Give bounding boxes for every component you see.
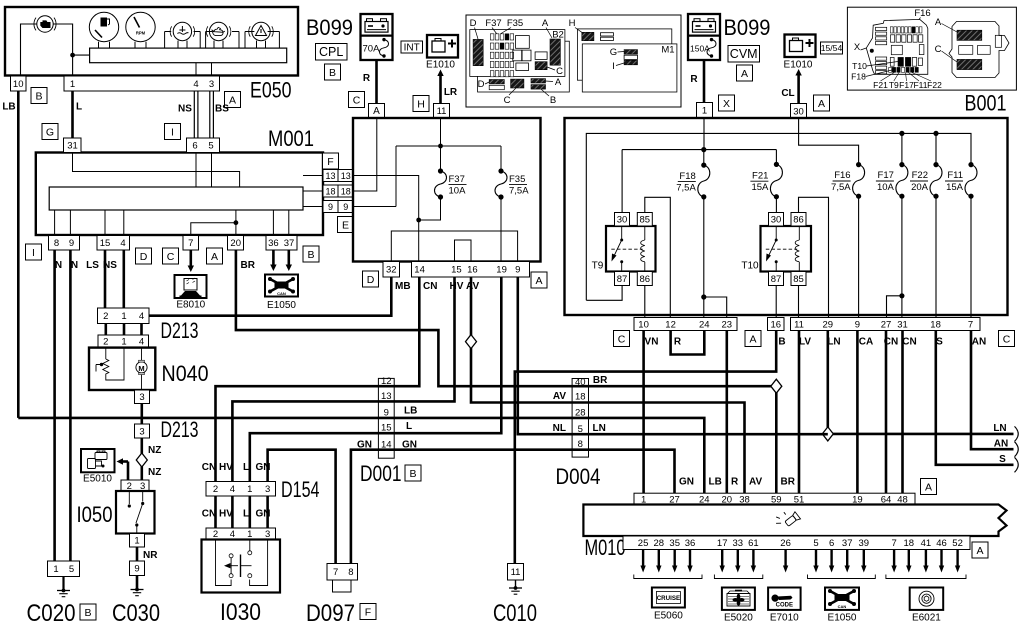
wire CN B001-27 to M010-64 [885, 331, 888, 494]
wire N pin8 to C020 [53, 250, 56, 561]
svg-text:17: 17 [717, 538, 728, 549]
svg-text:30: 30 [793, 106, 804, 117]
T9-86 wire to pin 10 [644, 286, 646, 318]
M001 internal wires to bottom pins [54, 210, 56, 236]
connector D001 strip [378, 378, 394, 458]
boxed letter A [814, 95, 830, 111]
svg-text:A: A [373, 106, 380, 117]
T9 coil [644, 226, 646, 240]
splice LN diamond [822, 427, 833, 441]
fusebox top bus [353, 206, 396, 208]
svg-text:N040: N040 [162, 361, 209, 386]
wire engine icon to pin 10 [21, 24, 38, 76]
oil pressure gauge [209, 22, 227, 40]
svg-text:B: B [409, 468, 416, 480]
svg-text:T9: T9 [889, 80, 899, 90]
svg-text:A: A [818, 98, 825, 110]
boxed label CPL [316, 44, 348, 61]
svg-text:24: 24 [699, 319, 710, 330]
svg-text:A: A [925, 481, 932, 493]
svg-text:32: 32 [386, 265, 397, 276]
connector D213 upper [98, 308, 150, 324]
wire AN B001-7 to right edge [971, 331, 1014, 450]
svg-text:23: 23 [722, 319, 733, 330]
T10 contacts [775, 226, 777, 240]
wires inner bar to pins 4 3 [195, 63, 197, 76]
T10-87 wire to pin 16 [775, 286, 777, 318]
svg-text:52: 52 [952, 538, 963, 549]
wire CN fusebox-14 to D154-2 [216, 277, 420, 482]
svg-text:I: I [32, 247, 35, 259]
svg-text:D: D [478, 79, 485, 90]
svg-text:41: 41 [921, 538, 932, 549]
svg-text:B001: B001 [965, 91, 1007, 116]
svg-text:CN: CN [202, 462, 216, 473]
wire CL arrow to E1010 [797, 75, 800, 104]
boxed letter I [165, 124, 181, 140]
svg-text:87: 87 [617, 274, 628, 285]
splice NZ diamond [136, 453, 147, 467]
svg-text:A: A [535, 275, 542, 287]
T10 pin 87 [769, 272, 784, 286]
svg-text:40: 40 [575, 377, 586, 388]
svg-text:9: 9 [343, 202, 348, 212]
svg-text:C020: C020 [27, 600, 76, 625]
svg-text:D001: D001 [360, 461, 402, 486]
M001 internal wire from 31 [73, 153, 240, 188]
svg-text:M010: M010 [585, 535, 626, 560]
svg-text:F16: F16 [834, 170, 850, 181]
svg-text:LB: LB [404, 406, 417, 417]
svg-text:L: L [243, 462, 249, 473]
M010 top pin strip [634, 493, 915, 504]
node junction in E050 [70, 53, 75, 58]
svg-text:3: 3 [265, 484, 270, 495]
svg-text:A: A [542, 18, 549, 29]
group brackets [634, 575, 702, 579]
M001 internal wires 6 5 [195, 153, 197, 188]
svg-text:CN: CN [202, 509, 216, 520]
boxed letter G [42, 124, 58, 140]
svg-text:LB: LB [2, 102, 15, 113]
svg-text:F16: F16 [914, 8, 930, 19]
wire NL fusebox-9 to LN line [518, 277, 828, 434]
svg-text:X: X [854, 42, 861, 53]
T9 contacts [621, 226, 623, 240]
svg-text:B: B [778, 337, 785, 348]
ground module E5010 [81, 449, 115, 472]
wire BR M001-20 to D004-40 and M010-59 [236, 250, 776, 386]
fuel pump module N040 [89, 348, 155, 390]
svg-text:I030: I030 [220, 599, 261, 625]
svg-text:1: 1 [70, 79, 75, 90]
svg-text:C010: C010 [493, 600, 537, 625]
wire VN B001-10 to M010-1 [642, 331, 645, 494]
svg-text:F21: F21 [873, 80, 888, 90]
svg-text:9: 9 [134, 564, 139, 575]
B001 box [565, 118, 1008, 315]
svg-text:X: X [723, 98, 730, 110]
M010 bottom pin strip [623, 536, 970, 550]
arrow pin7 to E8010 [190, 250, 193, 267]
boxed letter B [325, 64, 341, 80]
svg-text:GN: GN [679, 477, 694, 488]
B001 wire pin30 to F16 [799, 119, 859, 165]
svg-text:39: 39 [859, 538, 870, 549]
fuse slot row top [890, 27, 893, 33]
E050 pin 10 [11, 76, 27, 91]
svg-text:85: 85 [793, 274, 804, 285]
connector location inset box [466, 15, 681, 107]
svg-text:11: 11 [437, 106, 447, 117]
svg-text:I: I [171, 126, 174, 138]
svg-text:T10: T10 [852, 61, 867, 71]
svg-text:C: C [167, 251, 175, 263]
svg-text:14: 14 [414, 265, 425, 276]
splice BR diamond [771, 379, 782, 393]
svg-text:46: 46 [936, 538, 947, 549]
svg-text:NR: NR [143, 550, 158, 561]
svg-text:7: 7 [188, 238, 193, 249]
svg-text:LN: LN [827, 337, 840, 348]
wire LS pin15 to D213 [104, 250, 107, 308]
svg-text:18: 18 [575, 391, 586, 402]
svg-text:30: 30 [617, 215, 628, 226]
wire AV fusebox-16 to M010-38 [471, 277, 745, 493]
connector D213 pin 3 [135, 424, 150, 438]
fuse F22 [933, 162, 938, 167]
svg-text:CAN: CAN [277, 291, 286, 296]
svg-text:R: R [363, 73, 371, 84]
I050 pin 1 [130, 534, 145, 548]
svg-text:F17: F17 [899, 80, 914, 90]
wire LV B001-11 to M010-51 [798, 331, 801, 494]
svg-text:15: 15 [100, 238, 111, 249]
boxed letter A [921, 479, 937, 495]
wire CA B001-9 to M010-19 [856, 331, 859, 494]
svg-text:BR: BR [593, 375, 608, 386]
svg-text:15: 15 [451, 265, 462, 276]
svg-text:9: 9 [855, 319, 860, 330]
svg-text:NS: NS [178, 104, 192, 115]
svg-text:10A: 10A [877, 182, 895, 193]
label B leader [541, 89, 549, 96]
svg-text:11: 11 [511, 567, 521, 578]
svg-text:NZ: NZ [148, 467, 161, 478]
instrument inner bar [90, 48, 287, 63]
svg-text:87: 87 [771, 274, 782, 285]
svg-text:1: 1 [121, 337, 126, 348]
I050 contacts [128, 491, 130, 504]
svg-text:M: M [138, 364, 144, 373]
svg-text:3: 3 [139, 426, 144, 437]
module E1050 CAN [825, 588, 859, 610]
M010 main box [583, 505, 1006, 537]
svg-text:5: 5 [208, 141, 213, 152]
B001 bottom pins 11 29 9 27 31 18 7 [791, 318, 981, 331]
svg-text:7: 7 [891, 538, 896, 549]
svg-text:C: C [504, 95, 511, 106]
svg-text:F35: F35 [507, 18, 523, 29]
B001 T9-87 link [586, 286, 622, 301]
boxed letter B [80, 604, 96, 620]
T10 pin 86 [791, 213, 806, 227]
svg-text:B: B [84, 607, 91, 619]
svg-text:33: 33 [733, 538, 744, 549]
T9-85 wire to pin 12 [645, 197, 671, 317]
fuse slot row 2 [891, 35, 895, 42]
relay T9 box [606, 226, 656, 272]
svg-text:F17: F17 [878, 170, 894, 181]
fuse box [353, 118, 541, 262]
svg-text:E050: E050 [250, 78, 292, 103]
ground point E1010 [427, 35, 458, 58]
svg-text:E1010: E1010 [426, 60, 455, 71]
svg-text:HV: HV [219, 462, 233, 473]
svg-text:18: 18 [904, 538, 915, 549]
svg-text:3: 3 [139, 392, 144, 403]
M001 pins 6 5 [187, 138, 220, 153]
hatched rect H [582, 32, 594, 40]
svg-text:GN: GN [256, 462, 271, 473]
svg-text:CODE: CODE [776, 603, 793, 609]
svg-text:B099: B099 [306, 15, 353, 40]
fusebox pin 11 [434, 104, 450, 119]
M001 right connector rows 13 18 9 [323, 170, 338, 182]
svg-text:A: A [935, 17, 942, 28]
inset front sub-box [470, 30, 565, 77]
svg-text:4: 4 [139, 311, 144, 322]
svg-text:LV: LV [799, 337, 811, 348]
B001 long distribution line [586, 133, 971, 300]
fuse F16 [856, 162, 861, 167]
svg-text:I050: I050 [77, 502, 113, 527]
H sub-box rear [577, 29, 671, 80]
svg-text:8: 8 [348, 567, 353, 578]
svg-text:G: G [610, 47, 617, 58]
left fusebox slats bottom [876, 57, 887, 60]
bottom row rects [489, 80, 504, 84]
svg-text:7: 7 [968, 319, 973, 330]
svg-text:35: 35 [669, 538, 680, 549]
C020 ground [62, 577, 64, 590]
boxed letter C [349, 92, 365, 108]
wire LR arrow to E1010 [439, 75, 442, 104]
svg-text:F11: F11 [947, 170, 963, 181]
svg-text:36: 36 [268, 238, 279, 249]
module E5020 climate [722, 588, 755, 610]
fuse F37 [440, 146, 442, 171]
svg-text:29: 29 [823, 319, 834, 330]
B001 pin 30 [791, 104, 807, 119]
hatched rect D [473, 39, 483, 65]
svg-text:I: I [612, 61, 615, 72]
svg-text:15/54: 15/54 [821, 43, 843, 53]
svg-text:E1050: E1050 [267, 300, 296, 311]
svg-text:F18: F18 [851, 72, 866, 82]
fuse grid [490, 34, 494, 40]
svg-text:5: 5 [578, 424, 583, 435]
svg-text:S: S [936, 337, 943, 348]
svg-text:37: 37 [284, 238, 295, 249]
boxed letter A [531, 272, 547, 288]
svg-text:N: N [71, 260, 78, 271]
M001 bottom pins 8 9 [49, 236, 80, 251]
svg-text:6: 6 [192, 141, 197, 152]
svg-text:CPL: CPL [319, 45, 343, 59]
svg-text:61: 61 [748, 538, 759, 549]
white squares mid [891, 45, 902, 54]
H sub-box front M1 [582, 44, 677, 92]
svg-text:F18: F18 [679, 171, 695, 182]
svg-text:D213: D213 [161, 417, 199, 442]
svg-text:B: B [329, 67, 336, 79]
svg-text:A: A [741, 68, 748, 80]
svg-text:N: N [55, 260, 62, 271]
svg-text:F22: F22 [927, 80, 942, 90]
M001 bottom pin 20 [228, 236, 244, 251]
I030 internals [216, 540, 268, 586]
svg-text:C: C [353, 94, 361, 106]
label C leader [509, 88, 516, 95]
boxed letter A [745, 331, 761, 347]
svg-text:4: 4 [139, 337, 144, 348]
svg-text:31: 31 [897, 319, 908, 330]
svg-text:86: 86 [640, 274, 651, 285]
svg-text:A: A [976, 545, 983, 557]
svg-text:E1010: E1010 [784, 60, 813, 71]
svg-text:RPM: RPM [136, 31, 146, 36]
fuse F18 [703, 150, 705, 166]
svg-text:10: 10 [13, 79, 24, 90]
boxed letter A [207, 248, 223, 264]
M001 inner rect [49, 187, 303, 210]
connector D004 strip [572, 379, 588, 458]
svg-text:LS: LS [86, 260, 99, 271]
svg-text:AV: AV [466, 281, 479, 292]
svg-text:2: 2 [213, 484, 218, 495]
B001 top bus to T9-30 and F21 [622, 149, 776, 151]
svg-text:86: 86 [793, 215, 804, 226]
T9 pin 86 [637, 272, 652, 286]
switch I050 pins 2 3 [121, 480, 149, 491]
hatched rect C small [535, 62, 547, 70]
boxed letter I [26, 244, 42, 260]
wire GN D097-8 to M010-27 [351, 450, 675, 564]
module E7010 code key [768, 588, 801, 610]
svg-text:27: 27 [881, 319, 892, 330]
svg-text:BR: BR [241, 260, 256, 271]
svg-text:A: A [211, 251, 218, 263]
svg-text:LN: LN [993, 423, 1006, 434]
svg-text:CN: CN [423, 281, 437, 292]
svg-text:13: 13 [381, 391, 392, 402]
svg-text:15: 15 [381, 423, 392, 434]
svg-text:15A: 15A [946, 182, 964, 193]
svg-text:6: 6 [829, 538, 834, 549]
svg-text:10A: 10A [449, 186, 467, 197]
boxed letter C [614, 331, 630, 347]
boxed letter B [303, 246, 319, 262]
svg-text:9: 9 [328, 202, 333, 212]
M001 box [36, 153, 323, 236]
wire LN B001-29 to splice [826, 331, 829, 434]
svg-text:R: R [731, 477, 739, 488]
svg-text:F35: F35 [509, 174, 525, 185]
svg-text:8: 8 [54, 238, 59, 249]
D154 stub wires [214, 496, 217, 528]
fuse F21 [774, 162, 779, 167]
M001 pin 31 [64, 138, 82, 153]
svg-text:16: 16 [771, 319, 782, 330]
svg-text:INT: INT [404, 43, 420, 54]
svg-text:7,5A: 7,5A [831, 182, 851, 193]
svg-text:D097: D097 [306, 600, 355, 625]
svg-text:HV: HV [450, 281, 464, 292]
svg-text:13: 13 [325, 171, 335, 181]
svg-text:2: 2 [103, 311, 108, 322]
M001 bottom pin 7 [183, 236, 199, 251]
coolant temperature gauge [173, 22, 191, 40]
rpm gauge [126, 12, 155, 41]
switch I030 box [202, 540, 281, 593]
svg-text:LN: LN [593, 423, 606, 434]
svg-text:D: D [470, 18, 477, 29]
connector D213 lower [98, 335, 149, 348]
wire L fusebox-19 to D154-1 [250, 277, 501, 482]
boxed letter A [737, 65, 753, 81]
fusebox line 32 to 9 [391, 231, 517, 262]
svg-text:M1: M1 [661, 45, 674, 56]
module E6021 [910, 588, 944, 610]
svg-text:4: 4 [193, 79, 198, 90]
svg-text:12: 12 [381, 376, 392, 387]
svg-text:AN: AN [972, 337, 986, 348]
relay T10 box [761, 226, 812, 272]
svg-text:BS: BS [215, 104, 229, 115]
fuse F35 [500, 146, 502, 171]
svg-text:C030: C030 [112, 600, 160, 625]
boxed label INT [401, 41, 423, 53]
C hatched rect [957, 59, 982, 69]
svg-text:15A: 15A [751, 182, 769, 193]
wire R jumper 12-24 [671, 331, 705, 355]
svg-text:85: 85 [640, 215, 651, 226]
T9 pin 85 [637, 213, 652, 227]
svg-text:C: C [618, 333, 626, 345]
svg-text:19: 19 [496, 265, 507, 276]
svg-text:26: 26 [780, 538, 791, 549]
svg-text:20A: 20A [911, 182, 929, 193]
svg-text:70A: 70A [363, 44, 381, 55]
svg-text:H: H [569, 18, 576, 29]
boxed label 15/54 [821, 42, 843, 54]
svg-text:D: D [367, 274, 375, 286]
engine warning icon [34, 16, 56, 32]
E050 pin strip 1 4 3 [64, 76, 220, 91]
M010 lamp icon [773, 506, 800, 533]
svg-text:R: R [690, 74, 698, 85]
B001 pin 1 [697, 103, 713, 119]
T10 pin 30 [769, 213, 784, 227]
bottom fuse row with blacks [889, 67, 892, 72]
B001 bottom pins 10 12 24 23 [634, 318, 737, 331]
svg-text:2: 2 [103, 337, 108, 348]
boxed letter B [405, 465, 421, 481]
white rects [959, 46, 973, 55]
svg-text:S: S [999, 454, 1006, 465]
wire CN B001-31 to M010-48 [901, 331, 904, 494]
